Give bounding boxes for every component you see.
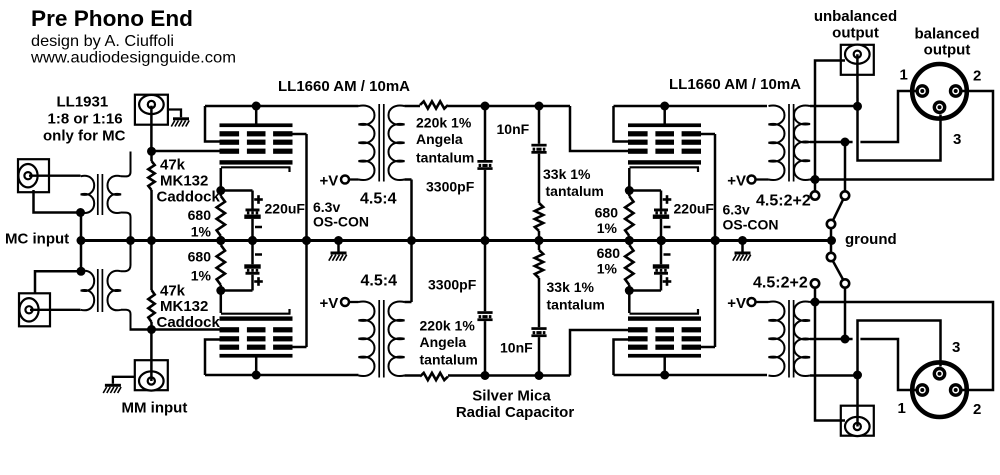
svg-text:only for MC: only for MC	[43, 128, 126, 145]
svg-text:4.5:4: 4.5:4	[360, 191, 397, 208]
svg-text:Caddock: Caddock	[157, 189, 221, 206]
svg-text:3: 3	[952, 339, 960, 356]
svg-text:Pre Phono End: Pre Phono End	[31, 6, 193, 31]
svg-text:680: 680	[595, 205, 619, 221]
svg-text:680: 680	[188, 207, 212, 223]
svg-text:220k 1%: 220k 1%	[416, 115, 472, 131]
svg-text:tantalum: tantalum	[420, 352, 478, 368]
svg-text:1%: 1%	[597, 261, 618, 277]
svg-text:47k: 47k	[160, 157, 186, 174]
svg-text:tantalum: tantalum	[547, 297, 605, 313]
svg-text:LL1660 AM / 10mA: LL1660 AM / 10mA	[278, 78, 410, 95]
svg-text:4.5:4: 4.5:4	[361, 273, 398, 290]
svg-text:output: output	[924, 42, 971, 59]
svg-text:MK132: MK132	[160, 298, 208, 315]
svg-text:+V: +V	[320, 173, 339, 190]
svg-text:47k: 47k	[160, 283, 186, 300]
svg-text:Radial Capacitor: Radial Capacitor	[456, 404, 575, 421]
svg-text:LL1931: LL1931	[57, 94, 109, 111]
svg-text:1%: 1%	[597, 220, 618, 236]
svg-text:680: 680	[188, 249, 212, 265]
svg-text:680: 680	[597, 245, 621, 261]
svg-text:+V: +V	[727, 173, 746, 190]
svg-text:10nF: 10nF	[500, 340, 533, 356]
svg-text:4.5:2+2: 4.5:2+2	[756, 193, 811, 210]
svg-text:10nF: 10nF	[497, 121, 530, 137]
svg-text:3: 3	[953, 131, 961, 148]
svg-text:Angela: Angela	[416, 131, 463, 147]
svg-text:33k 1%: 33k 1%	[547, 279, 595, 295]
svg-text:tantalum: tantalum	[546, 183, 604, 199]
svg-text:2: 2	[973, 401, 981, 418]
svg-text:220k 1%: 220k 1%	[420, 318, 476, 334]
svg-text:unbalanced: unbalanced	[814, 8, 897, 25]
svg-text:Angela: Angela	[420, 334, 467, 350]
svg-text:3300pF: 3300pF	[426, 179, 475, 195]
svg-text:OS-CON: OS-CON	[723, 217, 779, 233]
svg-text:220uF: 220uF	[674, 201, 715, 217]
svg-text:220uF: 220uF	[265, 201, 306, 217]
svg-text:+V: +V	[727, 295, 746, 312]
svg-text:2: 2	[973, 68, 981, 85]
svg-text:4.5:2+2: 4.5:2+2	[753, 275, 808, 292]
svg-text:MK132: MK132	[160, 173, 208, 190]
svg-text:33k 1%: 33k 1%	[543, 166, 591, 182]
svg-text:1:8 or 1:16: 1:8 or 1:16	[48, 111, 123, 128]
svg-text:1%: 1%	[191, 268, 212, 284]
svg-text:design by A. Ciuffoli: design by A. Ciuffoli	[31, 33, 174, 50]
svg-text:MC input: MC input	[5, 231, 69, 248]
svg-text:ground: ground	[845, 231, 897, 248]
svg-text:tantalum: tantalum	[416, 150, 474, 166]
svg-text:www.audiodesignguide.com: www.audiodesignguide.com	[30, 50, 236, 67]
svg-text:1: 1	[900, 67, 908, 84]
svg-text:MM input: MM input	[122, 400, 188, 417]
svg-text:LL1660 AM / 10mA: LL1660 AM / 10mA	[669, 76, 801, 93]
svg-text:+V: +V	[320, 295, 339, 312]
svg-text:1%: 1%	[191, 224, 212, 240]
svg-text:Caddock: Caddock	[157, 314, 221, 331]
svg-text:Silver Mica: Silver Mica	[472, 388, 551, 405]
svg-text:balanced: balanced	[914, 26, 979, 43]
svg-text:3300pF: 3300pF	[428, 277, 477, 293]
svg-text:output: output	[832, 25, 879, 42]
svg-text:OS-CON: OS-CON	[313, 214, 369, 230]
svg-text:6.3v: 6.3v	[723, 202, 750, 218]
svg-text:1: 1	[898, 400, 906, 417]
